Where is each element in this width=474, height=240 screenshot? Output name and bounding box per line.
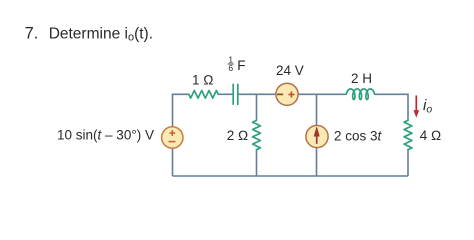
wire inductor to top-right corner and down to 4-ohm resistor [375, 94, 408, 120]
svg-text:2 cos 3t: 2 cos 3t [334, 129, 383, 144]
wire current source branch [316, 94, 318, 176]
voltage source V1 minus sign [169, 141, 176, 143]
current source I1 arrow [314, 127, 319, 144]
svg-text:7.: 7. [25, 24, 39, 42]
voltage source V2 plus sign [288, 91, 294, 97]
svg-text:10 sin(t – 30°) V: 10 sin(t – 30°) V [57, 128, 154, 143]
voltage source V1 plus sign [169, 130, 176, 142]
wire capacitor to inductor (passes under 24V source) [238, 93, 346, 95]
svg-text:2 Ω: 2 Ω [227, 128, 249, 143]
output current arrow io [414, 95, 419, 116]
inductor L1 2 H [346, 89, 374, 100]
svg-text:6: 6 [228, 63, 233, 73]
wire bottom [173, 175, 409, 177]
wire top-left segment [173, 93, 189, 96]
svg-text:24 V: 24 V [276, 63, 304, 78]
voltage source V1 10sin(t-30) circle [162, 127, 183, 148]
wire right side below 4-ohm resistor [407, 150, 409, 176]
resistor R2 2 ohm [253, 120, 261, 149]
voltage source V2 minus sign [277, 93, 283, 95]
resistor R1 1 ohm [189, 91, 218, 99]
svg-text:4 Ω: 4 Ω [420, 128, 442, 143]
label 1/6 fraction bar [228, 63, 234, 65]
wire left side [172, 94, 174, 176]
svg-text:io: io [423, 97, 432, 116]
svg-text:1 Ω: 1 Ω [192, 73, 214, 88]
resistor R3 4 ohm [404, 120, 412, 149]
current source I1 2cos3t circle [306, 125, 328, 147]
capacitor C1 1/6 F right plate [237, 84, 239, 104]
wire resistor R1 to capacitor left plate [218, 93, 233, 95]
svg-text:F: F [237, 58, 245, 73]
wire 2-ohm branch upper [256, 94, 258, 120]
capacitor C1 1/6 F left plate [232, 84, 234, 104]
svg-text:2 H: 2 H [351, 71, 372, 86]
voltage source V2 24V circle [276, 83, 298, 105]
svg-text:Determine io(t).: Determine io(t). [49, 25, 153, 43]
wire 2-ohm branch lower [256, 150, 258, 176]
